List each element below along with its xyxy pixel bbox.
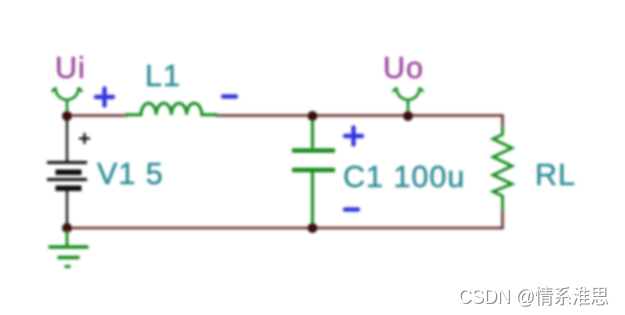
wire top: node Ui to node cap-top to node Uo to top-right corner [67, 114, 503, 117]
wire left rail upper (battery top lead, black) [66, 116, 68, 162]
inductor L1 [126, 103, 217, 115]
probe Uo [394, 89, 423, 115]
svg-text:CSDN @情系淮思: CSDN @情系淮思 [458, 285, 608, 308]
node Ui junction dot [62, 111, 72, 121]
wire right rail (bottom segment) [501, 209, 504, 229]
svg-text:Uo: Uo [383, 51, 424, 85]
node cap-bottom junction dot [308, 223, 318, 233]
minus sign below C1 [345, 207, 358, 211]
probe Ui [53, 89, 82, 115]
resistor RL [493, 126, 512, 210]
wire right rail (top segment) [501, 114, 504, 128]
watermark CSDN [458, 285, 609, 309]
wire bottom: node gnd to cap-bottom to bottom-right corner [67, 227, 503, 230]
svg-text:L1: L1 [145, 59, 181, 93]
svg-text:V1 5: V1 5 [97, 157, 164, 191]
plus sign at Ui node [96, 89, 113, 106]
battery plus mark [79, 133, 90, 144]
node gnd junction dot [62, 223, 72, 233]
svg-text:C1 100u: C1 100u [343, 160, 465, 194]
svg-text:RL: RL [535, 158, 576, 192]
node Uo junction dot [403, 111, 413, 121]
battery V1 plates [47, 163, 87, 192]
wire left rail lower (battery bottom lead, black) [66, 191, 68, 228]
plus sign above C1 [345, 128, 362, 145]
node cap-top junction dot [308, 111, 318, 121]
svg-text:Ui: Ui [55, 51, 86, 85]
minus sign after L1 [223, 94, 236, 98]
ground [49, 231, 89, 267]
capacitor C1 [292, 117, 335, 227]
